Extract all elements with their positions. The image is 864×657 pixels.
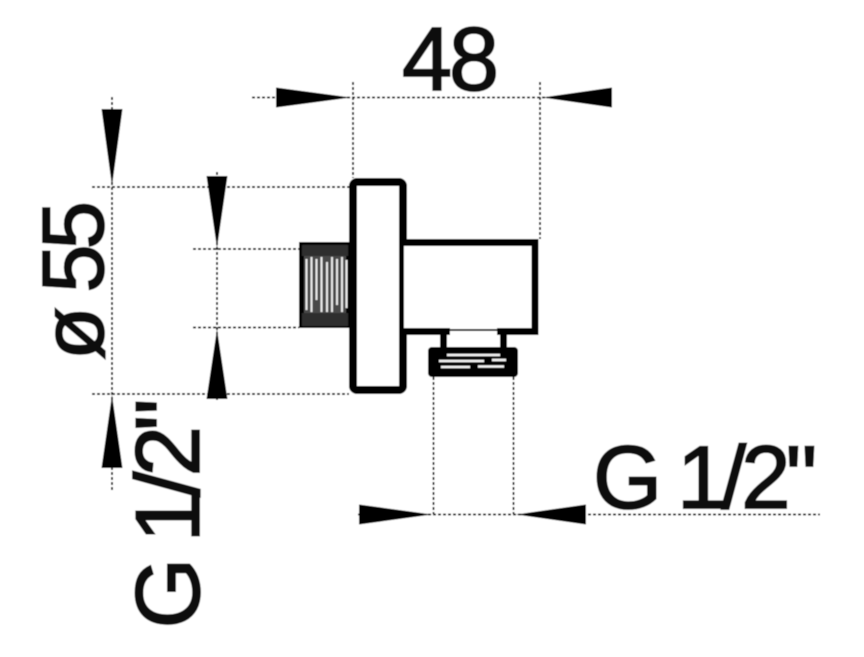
extension line thread top y249 <box>193 248 299 250</box>
body <box>404 242 535 332</box>
extension line bottom y394 <box>92 393 349 395</box>
outlet pipe left line <box>433 377 435 514</box>
neck left bar <box>440 331 447 349</box>
arrow dia55 top <box>102 109 123 186</box>
thread connector <box>302 245 349 326</box>
body bottom hidden line <box>450 329 497 331</box>
thread bottom band <box>302 313 348 326</box>
dim line G12 bottom horizontal <box>358 514 820 516</box>
arrow G12-left bottom <box>207 329 228 399</box>
body bottom edge left <box>404 328 450 335</box>
arrow 48 left <box>276 88 351 108</box>
body bottom edge right <box>497 328 539 335</box>
extension line right x540 <box>539 82 541 239</box>
svg-text:G 1/2": G 1/2" <box>118 402 219 629</box>
body top edge <box>404 239 539 246</box>
arrow dia55 bottom <box>102 395 123 468</box>
arrow G12-bottom right <box>516 505 586 525</box>
extension line left x353 <box>352 82 354 178</box>
dim line 48 horizontal <box>252 97 612 99</box>
svg-text:G 1/2": G 1/2" <box>593 427 814 527</box>
arrow G12-left top <box>207 176 228 248</box>
svg-text:ø 55: ø 55 <box>25 204 122 360</box>
extension line top y187 <box>92 186 349 188</box>
thread top band <box>302 245 348 256</box>
arrow 48 right <box>542 88 612 108</box>
thread crest lines <box>307 257 347 312</box>
dim line G12 left vertical <box>216 172 218 400</box>
nut <box>428 347 518 377</box>
outlet pipe right line <box>513 377 515 514</box>
body right edge <box>532 239 539 335</box>
neck right bar <box>500 331 507 349</box>
extension line thread bottom y327 <box>193 327 299 329</box>
flange <box>353 182 403 390</box>
svg-text:48: 48 <box>402 10 496 110</box>
arrow G12-bottom left <box>359 505 432 525</box>
dim line dia55 vertical <box>111 97 113 492</box>
nut highlight lines <box>439 355 506 367</box>
